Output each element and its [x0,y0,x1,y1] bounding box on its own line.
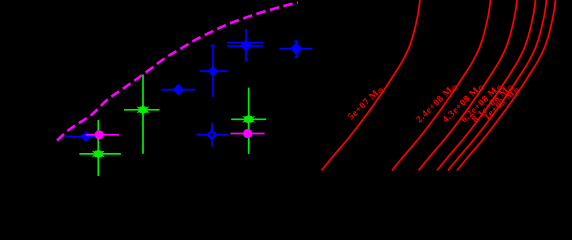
blue point B5 error bars [66,133,100,142]
blue point B6 error bars [197,123,229,147]
green point G3 error bars [231,88,266,154]
blue point B3 error bars [200,46,228,97]
blue point B5 diamond [80,131,91,142]
blue point B4 error bar [162,89,196,91]
magenta point M2 error bar [231,133,265,135]
green point G2 star marker [92,148,105,161]
blue point B4 diamond [173,84,184,95]
red curve 1 (5e+07 Msun) [322,0,421,171]
red curve 2 (2.4e+08 Msun) [392,0,491,171]
green point G1 star marker [137,103,150,116]
magenta point M1 circle [95,130,104,139]
blue point B3 diamond [208,66,219,77]
blue point B1 error bars (double horizontal) [227,29,263,62]
green point G2 error bars [79,120,121,176]
green point G3 star marker [242,113,255,126]
blue point B2 error bars [279,41,312,58]
magenta point M2 circle [243,129,252,138]
blue point B1 diamond [240,40,252,52]
dashed magenta model curve [57,3,298,141]
red curve 5 (8.1e+08 Msun) [448,0,547,171]
red curve 3 (4.3e+08 Msun) [419,0,518,171]
magenta point M1 error bar [86,134,119,136]
blue point B2 diamond [290,42,303,55]
red curve 4 (6.2e+08 Msun) [437,0,536,171]
green point G1 error bars [124,75,160,154]
red curve 6 (1e+09 Msun) [457,0,556,171]
blue point B6 open diamond [206,129,217,140]
